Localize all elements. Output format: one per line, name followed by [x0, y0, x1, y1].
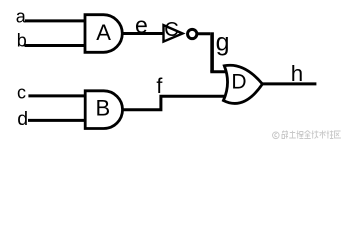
svg-text:b: b: [17, 30, 27, 50]
svg-text:D: D: [231, 71, 246, 94]
svg-text:f: f: [156, 74, 162, 98]
svg-text:A: A: [96, 20, 111, 45]
svg-text:d: d: [17, 108, 28, 130]
svg-text:e: e: [135, 12, 148, 38]
svg-text:g: g: [216, 28, 230, 56]
svg-text:h: h: [291, 61, 303, 86]
svg-text:C: C: [164, 19, 178, 41]
svg-text:a: a: [16, 7, 27, 27]
svg-text:B: B: [95, 96, 110, 121]
svg-text:c: c: [17, 82, 26, 102]
